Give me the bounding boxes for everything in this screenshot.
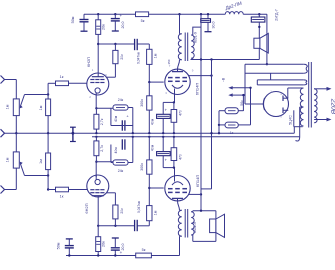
connector fb arrow 1 bbox=[232, 87, 251, 89]
node grid V2 bbox=[148, 81, 150, 83]
resistor R22b 20k bbox=[114, 219, 116, 226]
node fb jog bbox=[200, 193, 202, 195]
node R12 left bbox=[218, 124, 220, 126]
wire T2 primary bottom bbox=[179, 236, 181, 255]
node spk2 top bbox=[200, 210, 202, 212]
svg-text:24к: 24к bbox=[118, 169, 124, 173]
svg-text:+: + bbox=[120, 250, 123, 255]
wire plate node 3 bbox=[98, 225, 134, 227]
wire cathode V2 bbox=[174, 94, 176, 103]
wire wiper 1 bbox=[25, 94, 49, 96]
node plate 3b bbox=[114, 225, 116, 227]
svg-text:6П14П: 6П14П bbox=[195, 83, 200, 96]
node fb1 bbox=[249, 87, 251, 89]
svg-text:5к: 5к bbox=[141, 19, 145, 23]
wire R18 to grid bbox=[148, 188, 150, 206]
wire anode V1a bbox=[97, 44, 99, 73]
potentiometer R13 bbox=[13, 152, 19, 168]
wire R11 right bbox=[238, 110, 243, 112]
capacitor C3 30,0 bbox=[207, 14, 209, 19]
node plate 1 bbox=[97, 43, 99, 45]
wire T1 sec bottom bbox=[192, 58, 194, 59]
wire filament pair2 end bbox=[256, 80, 258, 85]
terminal bus bbox=[72, 127, 74, 141]
resistor R6b 20k bbox=[114, 44, 116, 50]
node bus B bbox=[173, 136, 175, 138]
wire cathode V5 bbox=[245, 103, 264, 105]
node bus A bbox=[162, 132, 164, 134]
node plate 3 bbox=[97, 225, 99, 227]
svg-text:6Н2П: 6Н2П bbox=[86, 57, 91, 67]
svg-text:6П14П: 6П14П bbox=[195, 175, 200, 188]
ground C3 bbox=[205, 31, 212, 33]
wire rail mid bbox=[149, 13, 226, 15]
svg-text:470: 470 bbox=[179, 154, 183, 160]
wire filament pair1 a bbox=[245, 63, 304, 65]
wire grid 1 bbox=[48, 82, 55, 84]
choke Dr1 bbox=[225, 12, 243, 15]
node rail3 R22 bbox=[97, 254, 99, 256]
connector fb arrow 2 bbox=[232, 94, 244, 96]
node sec a bbox=[200, 58, 202, 60]
svg-text:300к: 300к bbox=[140, 99, 144, 107]
node bus A bbox=[132, 132, 134, 134]
node input 3 grid bbox=[47, 188, 49, 190]
svg-text:+: + bbox=[119, 13, 122, 18]
wire fb2 down bbox=[242, 95, 244, 111]
wire cath RC 3 bbox=[96, 161, 113, 163]
svg-text:40м: 40м bbox=[151, 144, 155, 151]
node rail3 C13 bbox=[114, 254, 116, 256]
capacitor C6 bypass bbox=[121, 120, 123, 130]
wire T2 sec bottom bbox=[192, 235, 194, 241]
node bus B bbox=[162, 136, 164, 138]
node plate 1b bbox=[114, 43, 116, 45]
svg-text:40м: 40м bbox=[114, 115, 118, 122]
capacitor C4 out bbox=[258, 14, 260, 17]
wire R11 left bbox=[219, 110, 225, 112]
svg-text:1м: 1м bbox=[6, 104, 10, 109]
svg-text:50м: 50м bbox=[71, 16, 75, 23]
resistor R12 bbox=[225, 122, 238, 128]
wire filament pair2 a bbox=[257, 79, 303, 81]
resistor R15 grid stop bbox=[56, 187, 69, 192]
connector input 3 bbox=[1, 186, 5, 194]
resistor R5 5k bbox=[136, 12, 149, 17]
svg-text:2,7к: 2,7к bbox=[100, 118, 104, 125]
svg-text:470: 470 bbox=[179, 110, 183, 116]
connector input 1 bbox=[1, 76, 5, 84]
resistor R6 20k bbox=[97, 14, 99, 20]
wire T1 sec top bbox=[193, 27, 201, 35]
wire spk1 bottom bbox=[258, 48, 260, 59]
svg-text:30,0: 30,0 bbox=[212, 22, 216, 29]
svg-text:24к: 24к bbox=[118, 98, 124, 102]
resistor R16 cathode bbox=[95, 137, 97, 141]
wire to pot R1 bbox=[15, 80, 17, 99]
capacitor C2 20,0 bbox=[114, 14, 116, 18]
resistor R9 24k bbox=[113, 105, 128, 110]
transformer T3 core bbox=[308, 62, 310, 128]
wire cathode V1b bbox=[95, 162, 97, 177]
svg-text:20к: 20к bbox=[102, 24, 106, 30]
tube V2 6P14P bbox=[165, 69, 190, 94]
wire anode2 V1b bbox=[106, 192, 115, 194]
svg-text:50м: 50м bbox=[57, 242, 61, 249]
transformer T1 primary bbox=[178, 34, 181, 60]
wire bus A to T3 bbox=[293, 127, 295, 134]
resistor R11 bbox=[225, 108, 238, 114]
wire T1 sec common bbox=[200, 14, 202, 211]
transformer T2 secondary bbox=[191, 212, 194, 235]
wire fb1 down bbox=[250, 88, 252, 125]
wire tap curl bbox=[296, 137, 300, 141]
resistor R19 300k bbox=[148, 137, 150, 160]
wire RC1 right bbox=[132, 108, 134, 134]
wire anode V2 to T1 bbox=[178, 60, 180, 69]
ground C13 bbox=[112, 237, 119, 239]
svg-text:220В: 220В bbox=[330, 98, 335, 115]
node rail R6 bbox=[97, 13, 99, 15]
svg-text:1м: 1м bbox=[39, 105, 43, 110]
wire fb jog bbox=[201, 188, 212, 190]
tube V1a 6N2P bbox=[87, 73, 109, 95]
node rail C4 bbox=[258, 13, 260, 15]
svg-text:20к: 20к bbox=[102, 241, 106, 247]
wire R4 to grid bbox=[148, 64, 150, 82]
wire rail down bbox=[266, 14, 268, 64]
node rail C2 bbox=[114, 13, 116, 15]
transformer T3 primary bbox=[314, 89, 317, 123]
wire anode V5 bot bbox=[293, 110, 295, 126]
wire filament pair1 b bbox=[245, 72, 304, 74]
svg-text:40м: 40м bbox=[114, 147, 118, 154]
wire C5 to R4 bbox=[138, 43, 150, 45]
svg-text:5Ц4С: 5Ц4С bbox=[289, 115, 293, 125]
node C4 spk bbox=[258, 26, 260, 28]
capacitor C10 coupling bbox=[134, 220, 136, 231]
wire RC3 top bbox=[111, 144, 133, 146]
wire grid V2 bbox=[149, 81, 163, 83]
capacitor C9 bypass bbox=[121, 139, 123, 149]
potentiometer R1 bbox=[13, 99, 19, 116]
svg-text:2,7к: 2,7к bbox=[100, 145, 104, 152]
node cathode 3 bbox=[95, 161, 97, 163]
wire R2 bottom bbox=[47, 116, 49, 134]
wire cathode V1a bbox=[95, 95, 97, 108]
resistor R2 grid leak bbox=[46, 99, 51, 116]
node rail3 C12 bbox=[68, 254, 70, 256]
svg-text:2хГД-7: 2хГД-7 bbox=[275, 9, 279, 21]
node grid V4 bbox=[148, 187, 150, 189]
wire cath RC 1 bbox=[96, 107, 113, 109]
svg-text:20к: 20к bbox=[120, 54, 124, 60]
node bus A bbox=[218, 132, 220, 134]
svg-text:1м: 1м bbox=[6, 157, 10, 162]
wire screen V4 low bbox=[189, 193, 202, 195]
wire grid V4 bbox=[149, 187, 163, 189]
node fb2 bbox=[242, 94, 244, 96]
wire bus B bbox=[92, 136, 300, 138]
resistor R14 grid leak bbox=[47, 133, 49, 153]
wire pot R13 top bbox=[15, 133, 17, 152]
node bus B bbox=[95, 136, 97, 138]
resistor R7 300k bbox=[148, 82, 150, 96]
wire RC1 bottom bbox=[111, 125, 133, 127]
node bus A bbox=[95, 132, 97, 134]
resistor R8 cathode bbox=[94, 114, 99, 129]
node bus A bbox=[210, 132, 212, 134]
wire bottom rail left bbox=[66, 255, 136, 257]
svg-text:~В: ~В bbox=[222, 77, 226, 82]
wire bus A bbox=[5, 132, 295, 134]
resistor R3 grid stop bbox=[56, 81, 69, 86]
node bus A bbox=[15, 132, 17, 134]
speaker B2 bbox=[215, 211, 217, 219]
resistor R20 cath bbox=[173, 161, 175, 168]
capacitor C1 50m bbox=[83, 14, 85, 19]
wire filament pinch1 bbox=[304, 64, 308, 73]
node bus A bbox=[173, 132, 175, 134]
svg-text:5к: 5к bbox=[142, 248, 146, 252]
wire R7 bottom bbox=[148, 110, 150, 133]
node bus A bbox=[47, 132, 49, 134]
node cathode V2 bbox=[173, 101, 175, 103]
wire grid 1b bbox=[69, 82, 88, 84]
ground C12 bbox=[66, 238, 73, 240]
svg-text:20,0: 20,0 bbox=[121, 22, 125, 29]
svg-text:0,047мк: 0,047мк bbox=[137, 200, 141, 213]
wire R12 right bbox=[238, 124, 250, 126]
resistor R4 1M bbox=[147, 49, 152, 64]
capacitor C7 cath + bbox=[162, 102, 164, 114]
wire RC3 left bbox=[111, 162, 113, 164]
node sec b bbox=[210, 58, 212, 60]
wire OPT1 primary top bbox=[179, 14, 181, 34]
wire wiper 3 bbox=[25, 175, 49, 177]
node bus B bbox=[132, 136, 134, 138]
node wiper 1 bbox=[47, 93, 49, 95]
wire filament pair2 b bbox=[257, 84, 303, 86]
wire rail right bbox=[243, 13, 267, 15]
wire grid 3 bbox=[48, 189, 55, 191]
wire plate node 1 bbox=[98, 43, 134, 45]
wire bottom rail right bbox=[151, 255, 179, 257]
node bus A bbox=[148, 132, 150, 134]
wire anode V5 top bbox=[287, 88, 289, 98]
node wiper 3 bbox=[47, 174, 49, 176]
svg-text:300к: 300к bbox=[140, 163, 144, 171]
svg-text:1к: 1к bbox=[60, 75, 64, 79]
svg-text:40м: 40м bbox=[151, 118, 155, 125]
ground C1 bbox=[81, 30, 88, 32]
wire mains bottom bbox=[313, 120, 315, 123]
wire R1 bottom bbox=[15, 116, 17, 134]
wire grid node up bbox=[47, 83, 49, 99]
transformer T2 primary bbox=[178, 210, 181, 236]
wire anode V1b bbox=[97, 197, 99, 226]
wire R13 bottom bbox=[15, 168, 17, 189]
wire sec bus bbox=[191, 59, 260, 61]
wire filament left bbox=[244, 64, 246, 104]
resistor R22 20k bbox=[97, 252, 99, 256]
node cathode V4 bbox=[173, 166, 175, 168]
node bus B bbox=[148, 136, 150, 138]
capacitor C12 50m bbox=[68, 248, 70, 256]
node rail C3 bbox=[200, 13, 202, 15]
wire anode V4 to T2 bbox=[178, 201, 180, 211]
wire T2 sec top bbox=[192, 211, 194, 212]
node screen bbox=[210, 74, 212, 76]
pot R13 wiper arrow bbox=[20, 163, 24, 175]
wire RC1 left bbox=[110, 108, 112, 125]
pot R1 wiper arrow bbox=[20, 95, 24, 107]
capacitor C5 coupling bbox=[134, 39, 136, 50]
wire B+ top rail bbox=[84, 13, 136, 15]
transformer T1 core bbox=[184, 33, 186, 62]
svg-text:1к: 1к bbox=[60, 195, 64, 199]
wire input 3 bbox=[5, 189, 17, 191]
tube V4 6P14P bbox=[165, 176, 190, 201]
resistor R17 24k bbox=[113, 160, 128, 165]
capacitor C11 cath + bbox=[162, 156, 164, 168]
transformer T3 HV winding bbox=[300, 88, 303, 126]
node rail OPT1 bbox=[178, 13, 180, 15]
wire input 1 bbox=[5, 79, 17, 81]
wire R12 left bbox=[219, 124, 225, 126]
capacitor C13 20,0 bbox=[114, 250, 116, 255]
svg-text:1м: 1м bbox=[39, 159, 43, 164]
svg-text:ТВЗ1-9: ТВЗ1-9 bbox=[193, 222, 197, 234]
wire grid 3b bbox=[69, 189, 88, 191]
resistor R10 cath bbox=[173, 102, 175, 109]
svg-text:1м: 1м bbox=[154, 210, 158, 215]
svg-text:56к: 56к bbox=[240, 100, 244, 106]
ground C2 bbox=[112, 30, 119, 32]
resistor R21 5k bbox=[136, 253, 152, 258]
tube V5 5Ts4S bbox=[264, 92, 289, 117]
svg-text:20к: 20к bbox=[120, 208, 124, 214]
wire filament pinch2 bbox=[304, 80, 307, 85]
tube V1b 6N2P bbox=[87, 175, 109, 197]
node heater B+ bbox=[266, 63, 268, 65]
wire C10 to R18 bbox=[138, 225, 150, 227]
speaker B1 bbox=[254, 38, 260, 48]
svg-text:1м: 1м bbox=[154, 53, 158, 58]
node cathode 1 bbox=[95, 107, 97, 109]
wire mains top bbox=[314, 88, 327, 90]
connector input 2 bbox=[1, 129, 5, 137]
wire center tap bbox=[300, 106, 304, 108]
wire cathode V4 bbox=[174, 168, 176, 177]
svg-text:ТВЗ1-9: ТВЗ1-9 bbox=[194, 32, 198, 44]
resistor R18 1M bbox=[147, 206, 152, 221]
svg-text:6Н2П: 6Н2П bbox=[84, 203, 89, 213]
svg-text:0,047мк: 0,047мк bbox=[137, 51, 141, 64]
wire screen V2 bbox=[189, 75, 212, 77]
wire R9 left bbox=[111, 107, 113, 109]
wire filament link bbox=[270, 73, 272, 80]
wire RC3 right bbox=[132, 137, 134, 163]
node rail C3 stem bbox=[207, 13, 209, 15]
transformer T2 core bbox=[184, 209, 186, 238]
wire vert fb bbox=[211, 60, 213, 189]
transformer T1 secondary bbox=[191, 35, 194, 58]
wire anode2 V1a bbox=[106, 76, 115, 78]
